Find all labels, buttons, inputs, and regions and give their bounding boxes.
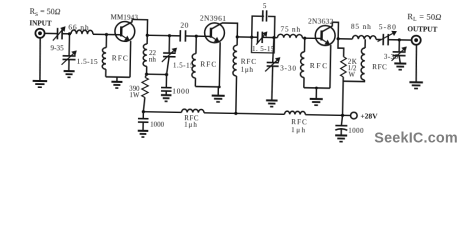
svg-text:1μh: 1μh [241, 65, 254, 73]
node I [236, 35, 239, 38]
svg-text:1.5-15: 1.5-15 [173, 61, 194, 69]
node O [337, 37, 340, 40]
output terminal J2 [411, 36, 420, 45]
svg-text:1W: 1W [129, 92, 140, 99]
wire node D to node E [147, 73, 167, 75]
transistor Q1 MM1943 [115, 21, 135, 41]
capacitor C6 5 pF [262, 10, 264, 21]
svg-text:66 nh: 66 nh [68, 23, 89, 32]
transistor Q3 2N3632 [315, 25, 335, 45]
wire Q2 collector to node I [221, 23, 237, 37]
ground [138, 130, 148, 132]
node P [398, 38, 401, 41]
variable capacitor C1 9-35 [56, 28, 58, 39]
tie wire Q3 [304, 87, 330, 89]
wire node I to node J [237, 36, 251, 38]
wire L1 to node B [93, 33, 106, 35]
svg-text:MM1943: MM1943 [110, 13, 138, 22]
wire node K to L6 [274, 37, 277, 39]
node Q (rail left end) [142, 110, 145, 113]
node A [68, 32, 71, 35]
inductor L8 85 nh [352, 35, 376, 39]
RFC choke L7 (Q3 base) [304, 38, 306, 52]
feedback bridge wire right [268, 16, 275, 37]
svg-text:RFC: RFC [200, 59, 217, 68]
node K [272, 36, 275, 39]
svg-text:1000: 1000 [172, 86, 190, 95]
capacitor 1000 pF bypass (left) [142, 112, 144, 119]
node C [146, 34, 149, 37]
label box around 1. 5-15 [251, 37, 274, 53]
Q2 emitter lead with arrow [211, 36, 216, 39]
node D [145, 73, 148, 76]
svg-text:1μh: 1μh [184, 121, 198, 129]
svg-text:1. 5-15: 1. 5-15 [252, 45, 275, 53]
svg-text:3-30: 3-30 [384, 53, 399, 61]
node J [250, 36, 253, 39]
variable capacitor C9 5-80 series [382, 34, 384, 45]
wire C1 to node A [62, 33, 71, 35]
wire C2 to ground [68, 60, 70, 72]
emitter-base tie wire [106, 76, 130, 78]
ground [217, 87, 219, 96]
wire C9 to node P [388, 39, 399, 41]
wire Q2 emitter down [218, 42, 221, 87]
svg-text:SeekIC.com: SeekIC.com [374, 130, 458, 146]
svg-text:85 nh: 85 nh [351, 22, 372, 31]
capacitor 1000 pF bypass (right) [341, 115, 342, 125]
wire R2 to +28V rail [342, 77, 345, 115]
svg-text:75 nh: 75 nh [280, 24, 301, 33]
svg-text:5-80: 5-80 [379, 22, 398, 31]
tie wire Q2 [195, 85, 219, 87]
feedback bridge wire left [252, 16, 264, 37]
svg-text:2N3632: 2N3632 [308, 17, 334, 26]
svg-text:1000: 1000 [150, 121, 165, 129]
ground [266, 99, 277, 101]
svg-text:1μh: 1μh [291, 126, 307, 134]
svg-text:RFC: RFC [310, 61, 329, 70]
variable capacitor C7 1.5-15 series [257, 32, 259, 43]
wire input terminal to ground [39, 38, 40, 81]
Q3 base lead [305, 37, 322, 39]
resistor R2 2K 1/2W [338, 39, 344, 57]
svg-text:5: 5 [263, 2, 267, 10]
wire Q3 collector to node O [332, 22, 338, 39]
Q2 collector lead [211, 23, 222, 30]
wire terminal to C1 [44, 32, 57, 34]
capacitor C5 20 pF series [179, 30, 181, 41]
svg-text:1.5-15: 1.5-15 [77, 57, 98, 66]
Q1 collector lead [121, 19, 132, 28]
svg-text:20: 20 [180, 21, 189, 30]
RFC choke L2 (Q1 base) [102, 48, 106, 70]
resistor R1 390 ohm 1W [145, 74, 146, 77]
ground [394, 62, 406, 64]
Q2 base lead [196, 35, 211, 37]
variable capacitor C8 3-30 shunt [273, 38, 274, 63]
wire C7 to node K [262, 36, 274, 38]
input terminal J1 [35, 29, 44, 38]
+28V terminal [350, 112, 357, 119]
node H [218, 86, 221, 89]
svg-text:RFC: RFC [372, 63, 388, 71]
RFC choke L11 1uh (supply) [285, 111, 306, 115]
svg-text:OUTPUT: OUTPUT [407, 24, 437, 34]
svg-text:W: W [349, 72, 356, 79]
wire C5 to node G [185, 35, 196, 37]
RFC choke L4 (Q2 base) [195, 36, 197, 53]
node B (Q1 base) [105, 33, 108, 36]
+28V supply rail [143, 111, 181, 114]
node G (Q2 base) [195, 35, 198, 38]
RFC choke L10 1uh (supply) [182, 109, 204, 113]
variable capacitor C10 3-30 shunt [398, 40, 400, 52]
node M (Q3 base) [303, 37, 306, 40]
Q3 emitter lead with arrow [321, 39, 326, 42]
svg-text:INPUT: INPUT [29, 19, 52, 27]
node N [315, 87, 318, 90]
wire node O to L8 [338, 38, 352, 40]
svg-text:RFC: RFC [112, 53, 129, 62]
transistor Q2 2N3961 [204, 23, 224, 43]
ground [409, 81, 422, 83]
wire Q3 emitter down [329, 45, 332, 88]
wire Q1 emitter down [129, 41, 132, 77]
node S (R2 to rail) [341, 114, 344, 117]
node R (RFC L5 to rail) [234, 112, 237, 115]
node E [165, 73, 168, 76]
ground [64, 70, 75, 72]
wire node P to output terminal [399, 39, 411, 41]
wire Q1 collector to node C [132, 19, 148, 35]
wire output terminal to ground [416, 45, 417, 83]
RFC choke L5 1uh (Q2 collector) [236, 37, 238, 45]
svg-text:2N3961: 2N3961 [200, 13, 227, 22]
RFC choke L9 (output) [364, 39, 366, 48]
Q1 base lead [106, 34, 121, 36]
ground [161, 94, 171, 96]
wire node A down to C2 [68, 34, 70, 56]
svg-text:3-30: 3-30 [280, 64, 297, 72]
svg-text:1000: 1000 [348, 127, 364, 135]
wire node B down to RFC [105, 35, 107, 48]
svg-text:nh: nh [149, 56, 157, 64]
variable capacitor C2 1.5-15 shunt [63, 55, 76, 57]
wire L8 to C9 [376, 38, 381, 40]
wire node J to C7 [252, 36, 258, 38]
ground [116, 77, 118, 82]
svg-text:9-35: 9-35 [50, 44, 64, 52]
svg-text:+28V: +28V [360, 111, 378, 120]
variable capacitor C3 1.5-15 shunt [168, 36, 170, 53]
wire node F to C5 [169, 35, 180, 37]
inductor L6 75 nh [277, 34, 302, 38]
node F [168, 34, 171, 37]
capacitor 1000 pF bypass [165, 75, 167, 88]
ground [315, 88, 317, 99]
Q3 collector lead [322, 22, 333, 32]
inductor L1 66 nh [71, 30, 93, 34]
ground [33, 80, 47, 82]
wire node C to node F [147, 34, 169, 36]
ground [335, 134, 347, 136]
wire L6 to node M [302, 37, 305, 39]
inductor L3 22 nh [146, 35, 148, 44]
Q1 emitter lead with arrow [121, 35, 126, 38]
